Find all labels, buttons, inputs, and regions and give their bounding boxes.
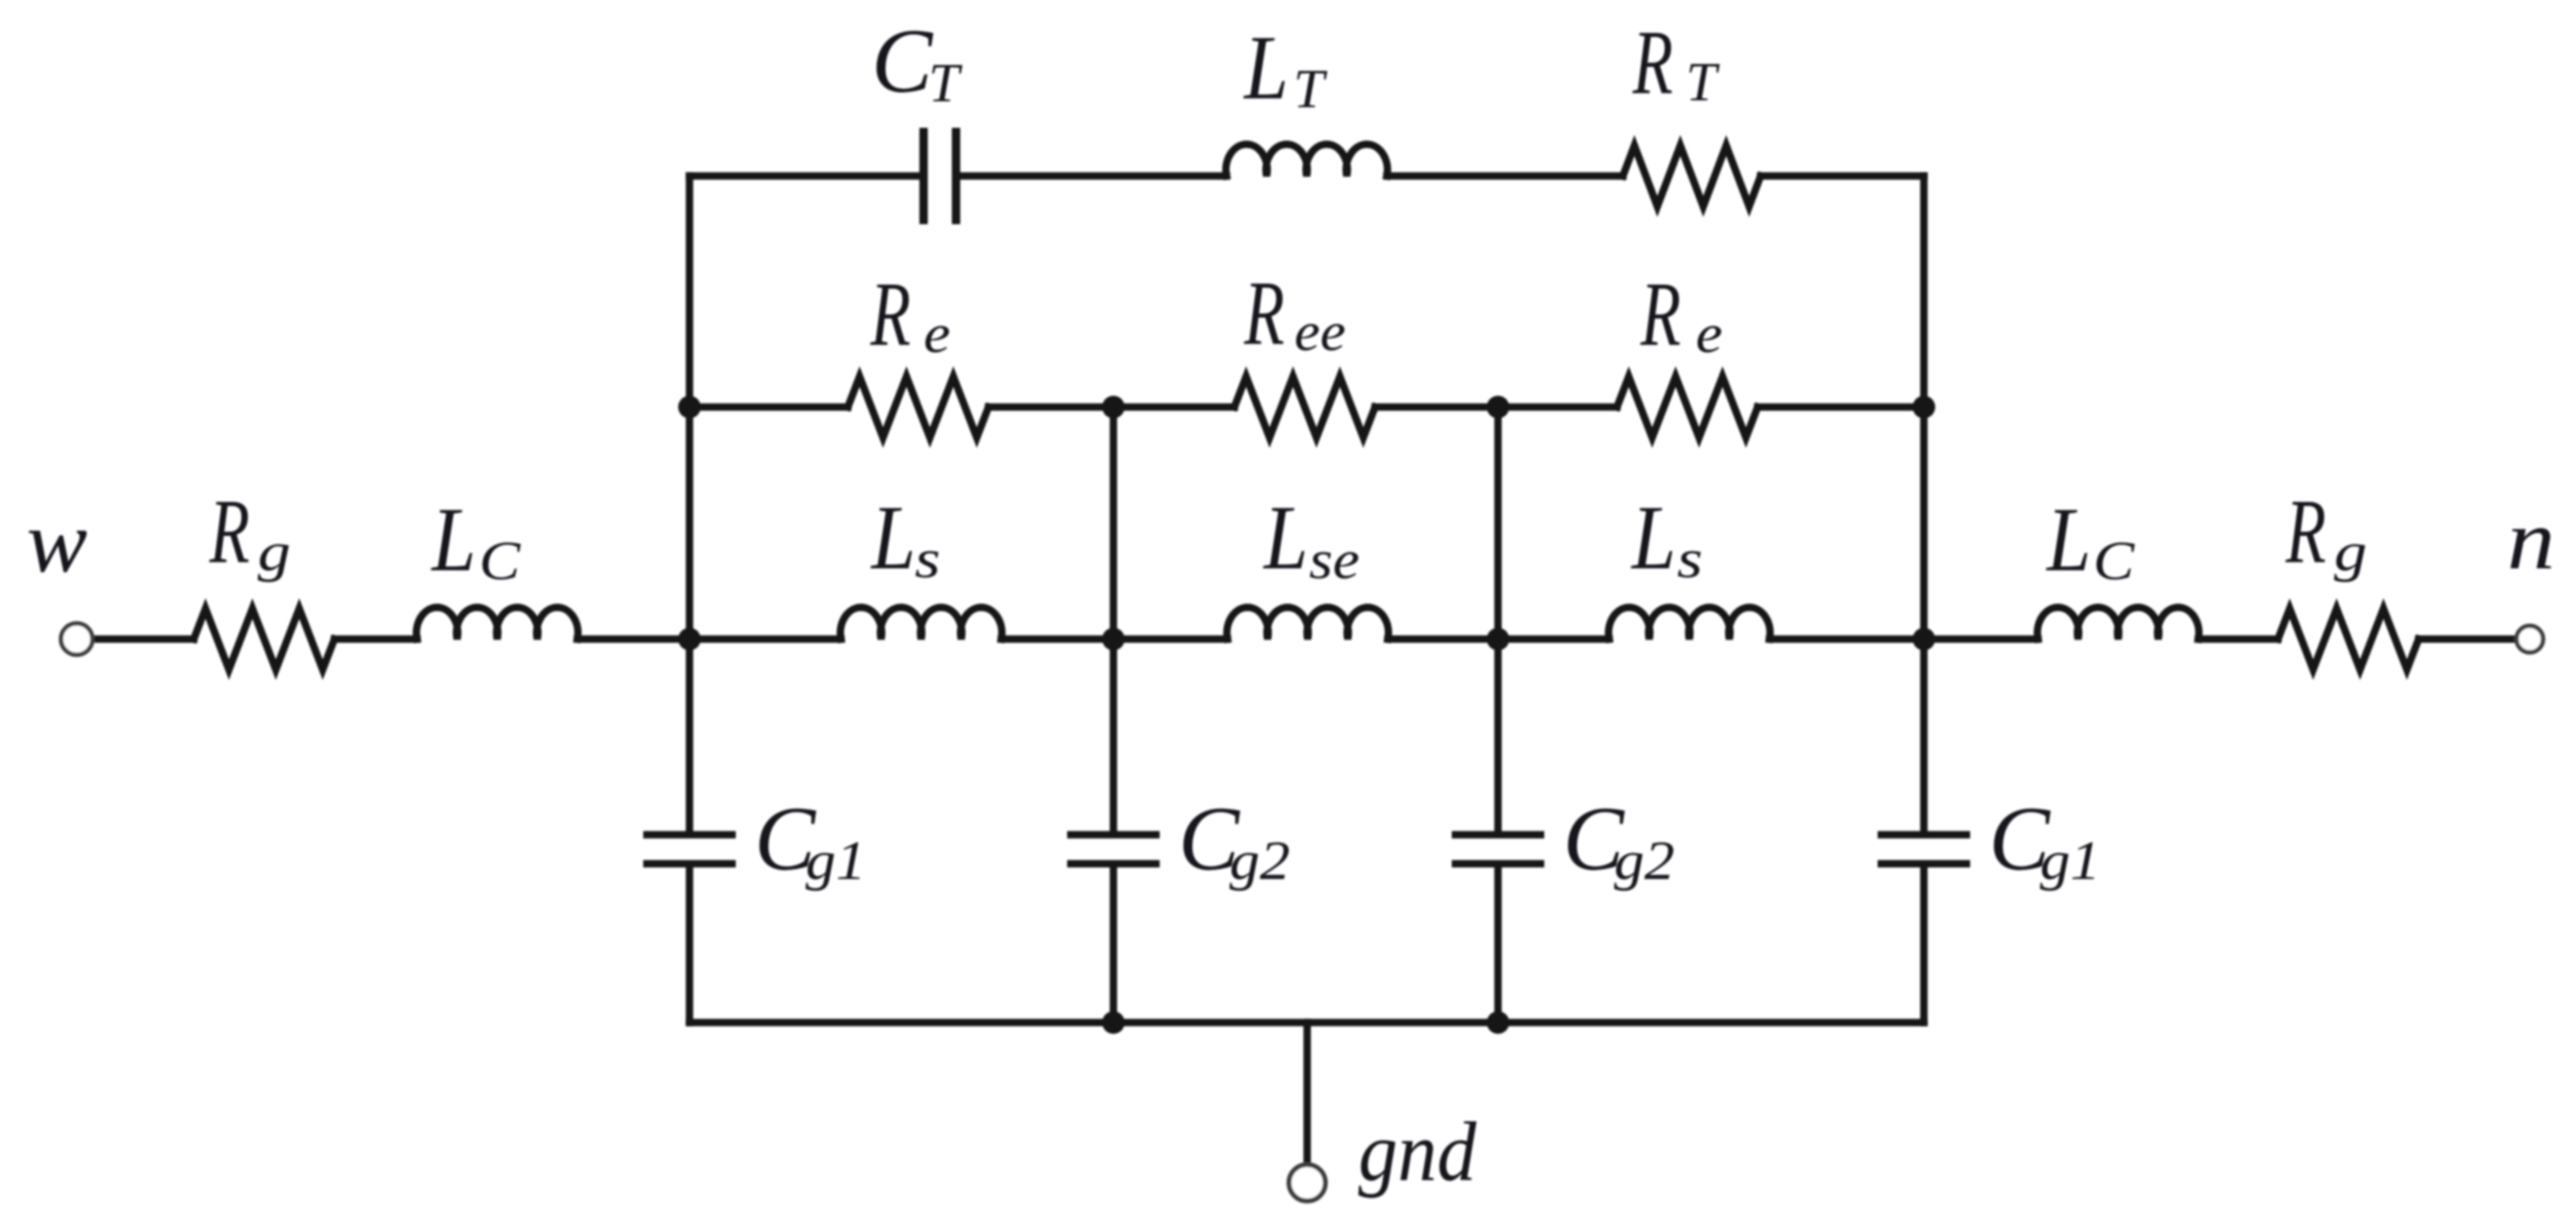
svg-text:L: L: [869, 487, 916, 588]
svg-text:C: C: [2093, 530, 2135, 591]
svg-text:L: L: [1262, 487, 1308, 588]
svg-text:g2: g2: [1229, 831, 1290, 892]
svg-text:R: R: [869, 263, 911, 365]
svg-text:R: R: [209, 481, 250, 582]
svg-text:R: R: [1632, 12, 1673, 113]
svg-text:L: L: [430, 489, 476, 590]
svg-text:T: T: [929, 53, 963, 114]
svg-text:R: R: [1640, 263, 1681, 365]
svg-text:g: g: [258, 522, 291, 583]
svg-text:g1: g1: [806, 831, 867, 892]
svg-text:L: L: [1242, 17, 1288, 118]
svg-text:L: L: [2045, 489, 2091, 590]
svg-text:gnd: gnd: [1358, 1104, 1476, 1198]
svg-text:se: se: [1309, 530, 1359, 591]
svg-text:g1: g1: [2040, 831, 2101, 892]
svg-text:R: R: [2285, 481, 2326, 582]
svg-text:e: e: [1696, 304, 1722, 365]
svg-text:g2: g2: [1614, 831, 1675, 892]
svg-text:g: g: [2334, 522, 2367, 583]
svg-text:ee: ee: [1294, 302, 1346, 362]
svg-text:R: R: [1243, 263, 1285, 364]
svg-text:T: T: [1686, 52, 1720, 113]
svg-text:s: s: [1677, 529, 1703, 590]
svg-text:C: C: [871, 11, 933, 112]
svg-text:w: w: [27, 493, 88, 590]
svg-text:n: n: [2507, 493, 2555, 587]
svg-text:L: L: [1630, 487, 1676, 588]
svg-text:s: s: [915, 529, 940, 590]
svg-text:T: T: [1293, 59, 1328, 120]
svg-text:C: C: [479, 530, 521, 591]
svg-text:e: e: [924, 304, 950, 365]
